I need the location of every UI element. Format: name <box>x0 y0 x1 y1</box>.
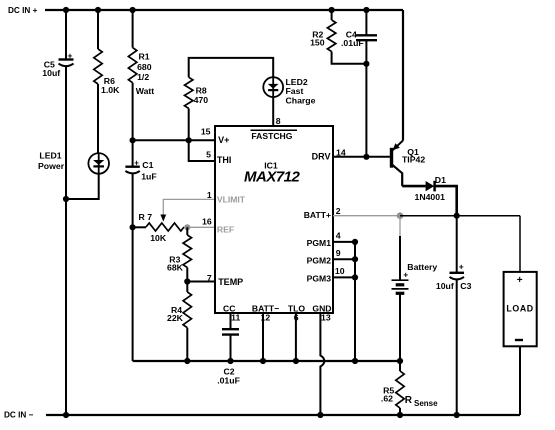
wire: TLO pin 6 to ground bus <box>295 313 297 361</box>
svg-text:C1: C1 <box>142 160 153 170</box>
label R6 value <box>101 76 120 95</box>
svg-text:REF: REF <box>217 224 234 234</box>
svg-text:C3: C3 <box>460 281 471 291</box>
junction: top rail / R2 <box>329 7 335 13</box>
junction: TLO / ground bus <box>293 358 299 364</box>
R7 wiper arrow <box>160 215 166 222</box>
pin number 14 <box>336 148 346 158</box>
junction: top rail / R1 <box>130 7 136 13</box>
svg-text:.01uF: .01uF <box>341 38 364 48</box>
svg-text:LED1: LED1 <box>39 151 61 161</box>
wire: TEMP node to IC <box>187 281 215 283</box>
wire: DRV pin 14 to Q1 base <box>333 156 390 158</box>
svg-text:V+: V+ <box>218 135 229 145</box>
wire: R5 to bottom rail <box>399 408 401 415</box>
svg-text:16: 16 <box>202 217 212 227</box>
node DC IN + label <box>8 6 38 15</box>
label IC1 designator <box>264 161 278 171</box>
pin number 15 <box>201 127 211 137</box>
resistor R5 <box>396 371 404 408</box>
junction: left vertical / R7 left terminal <box>130 224 136 230</box>
junction: PGM2 / PGM strap <box>352 256 358 262</box>
label V+ pin name <box>218 135 229 145</box>
wire: R8 bottom to V+ wire <box>188 108 190 140</box>
label D1 designator <box>415 175 447 202</box>
label R8 value <box>194 85 209 105</box>
wire: IC BATT+ pin 2 to battery node (gray) <box>333 215 400 217</box>
resistor R6 <box>94 49 102 84</box>
wire: C1 to ground bus <box>132 174 134 362</box>
wire: R7 left lead <box>133 226 146 228</box>
svg-text:Charge: Charge <box>286 96 316 106</box>
junction: R7 / REF / R3 (gray) <box>184 224 190 230</box>
wire: R4 to ground bus <box>186 328 188 361</box>
label PGM2 pin name <box>307 256 332 266</box>
capacitor C2 <box>222 329 239 334</box>
wire: V+ to IC pin 15 <box>133 139 215 141</box>
label LOAD <box>506 275 533 340</box>
label R7 value <box>139 212 167 243</box>
label VLIMIT pin name (gray) <box>217 195 246 205</box>
wire: ground bus to R5 <box>399 361 401 371</box>
svg-text:+: + <box>68 51 73 61</box>
svg-text:14: 14 <box>336 148 346 158</box>
svg-text:.01uF: .01uF <box>217 375 240 385</box>
pin number 5 <box>206 150 211 160</box>
junction: R3 / R4 / TEMP <box>184 278 190 284</box>
wire: battery node gray drop <box>399 216 401 236</box>
wire: LOAD to bottom rail <box>519 346 521 415</box>
svg-text:Battery: Battery <box>407 262 437 272</box>
pin number 11 <box>231 312 240 322</box>
svg-text:R 7: R 7 <box>139 212 153 222</box>
wire: R7 right lead to REF (gray) <box>184 226 215 228</box>
svg-text:FASTCHG: FASTCHG <box>251 131 292 141</box>
label C2 value <box>217 367 240 386</box>
junction: BATT+ / battery (gray) <box>397 212 404 219</box>
wire: top rail drop to Q1 emitter <box>402 10 404 141</box>
label PGM3 pin name <box>307 274 332 284</box>
svg-text:Power: Power <box>38 161 65 171</box>
svg-text:R1: R1 <box>139 51 150 61</box>
label Battery <box>403 262 437 280</box>
svg-text:PGM1: PGM1 <box>307 238 332 248</box>
capacitor C3 <box>450 262 465 280</box>
wire: top rail to R2 <box>331 10 333 20</box>
label PGM1 pin name <box>307 238 332 248</box>
wire: top rail to C5 plus plate <box>65 10 67 59</box>
label TEMP pin name <box>218 277 243 287</box>
pin number 13 <box>321 312 331 322</box>
label REF pin name (gray) <box>217 224 234 234</box>
svg-text:150: 150 <box>310 38 325 48</box>
LED LED1 <box>88 153 109 174</box>
pin number 7 <box>207 273 212 283</box>
svg-text:10K: 10K <box>150 233 167 243</box>
junction: top rail / C4 <box>363 7 369 13</box>
wire: CC pin 11 to C2 <box>230 313 232 329</box>
battery B1 <box>392 280 409 293</box>
wire: top rail to R1 <box>132 10 134 48</box>
wire: C3 to bottom rail <box>456 280 458 416</box>
svg-text:Watt: Watt <box>136 86 155 96</box>
svg-text:1.0K: 1.0K <box>101 85 120 95</box>
junction: top rail / C5 <box>63 7 69 13</box>
junction: R2 / C4 <box>363 61 369 67</box>
wire: DC IN- bottom rail <box>46 414 520 416</box>
potentiometer R7 <box>146 223 184 231</box>
svg-text:10uf: 10uf <box>42 68 60 78</box>
junction: PGM1 / PGM strap <box>352 239 358 245</box>
wire: C2 to ground bus <box>230 335 232 361</box>
junction: BATT- / ground bus <box>260 358 266 364</box>
wire: Q1 collector to D1 <box>402 185 426 188</box>
label R3 value <box>167 254 184 272</box>
label C4 value <box>341 29 364 48</box>
wire: LED2 cathode to FASTCHG pin 8 <box>272 97 274 126</box>
svg-text:+: + <box>403 270 408 280</box>
svg-text:10uf: 10uf <box>436 281 454 291</box>
resistor R1 <box>128 48 136 83</box>
junction: R4 / ground bus <box>184 358 190 364</box>
wire: PGM3 pin 10 strap <box>333 276 355 278</box>
wire: PGM1 pin 4 strap <box>333 241 355 243</box>
svg-text:PGM3: PGM3 <box>307 274 332 284</box>
label LED2 <box>286 77 316 105</box>
wire: PGM2 pin 9 strap <box>333 258 355 260</box>
svg-text:1uF: 1uF <box>141 172 156 182</box>
label MAX712 part number <box>244 169 301 186</box>
label Q1 designator <box>402 147 425 165</box>
capacitor C1 <box>125 158 139 173</box>
pin number 4 <box>336 231 341 241</box>
wire: R8 top to LED2 anode <box>189 58 274 78</box>
label GND pin name <box>312 304 331 314</box>
junction: D1 / C3 / BATT+ wire <box>454 213 460 219</box>
load box <box>504 272 537 346</box>
wire: R1 to V+ node <box>132 83 134 141</box>
svg-text:13: 13 <box>321 312 331 322</box>
label R1 value <box>136 51 155 96</box>
wire: R3 to TEMP node <box>186 268 188 282</box>
svg-text:1: 1 <box>207 190 212 200</box>
junction: R8 / V+ wire / THI branch <box>186 137 192 143</box>
wire: TEMP node to R4 <box>186 282 188 292</box>
svg-text:15: 15 <box>201 127 211 137</box>
label R5 value <box>381 386 394 404</box>
junction: R1 / C1 / V+ wire <box>130 137 136 143</box>
wire: DC IN+ top rail <box>45 9 403 11</box>
pin number 8 <box>276 116 281 126</box>
capacitor C4 <box>356 35 377 40</box>
svg-text:22K: 22K <box>167 313 184 323</box>
pin number 10 <box>335 266 345 276</box>
svg-text:Fast: Fast <box>286 86 304 96</box>
resistor R8 <box>185 77 193 108</box>
wire: GND pin 13 hop over bus to bottom rail <box>320 313 324 415</box>
transistor Q1 TIP42 <box>392 141 404 187</box>
resistor R2 <box>327 20 335 52</box>
svg-text:7: 7 <box>207 273 212 283</box>
svg-text:1/2: 1/2 <box>137 72 149 82</box>
wire: VLIMIT to R7 wiper (gray) <box>163 199 215 214</box>
svg-text:+: + <box>459 262 464 272</box>
wire: PGM strap to ground bus <box>354 242 356 361</box>
svg-text:MAX712: MAX712 <box>244 169 301 186</box>
wire: battery node to battery plus plate <box>399 236 401 280</box>
wire: R2 bottom to C4 line <box>332 52 367 64</box>
wire: LED1 cathode down and left to C5 line <box>66 174 99 199</box>
svg-text:LOAD: LOAD <box>506 304 533 314</box>
label DRV pin name <box>312 152 331 162</box>
label R Sense <box>405 395 438 408</box>
wire: V+ node to C1 <box>132 140 134 166</box>
wire: THI branch to IC pin 5 <box>189 140 215 161</box>
svg-text:8: 8 <box>276 116 281 126</box>
pin number 9 <box>336 248 341 258</box>
label R4 value <box>167 305 184 323</box>
svg-text:TIP42: TIP42 <box>402 154 425 164</box>
svg-text:DC IN +: DC IN + <box>8 6 38 15</box>
LED LED2 <box>263 77 283 97</box>
op-amp U1 IC1 MAX712 body <box>215 126 333 313</box>
svg-text:VLIMIT: VLIMIT <box>217 195 246 205</box>
junction: C4 line / DRV wire <box>363 154 369 160</box>
svg-text:680: 680 <box>137 62 152 72</box>
label BATT+ pin name <box>304 210 331 220</box>
pin number 6 <box>294 312 299 322</box>
resistor R3 <box>183 235 191 268</box>
junction: GND / bottom rail <box>317 412 323 418</box>
resistor R4 <box>183 292 191 328</box>
svg-text:THI: THI <box>217 155 232 165</box>
svg-text:1N4001: 1N4001 <box>415 192 446 202</box>
label C1 value <box>141 160 156 181</box>
wire: R6 to LED1 <box>97 84 99 154</box>
capacitor C5 <box>59 51 74 67</box>
svg-text:11: 11 <box>231 312 240 322</box>
junction: C3 / bottom rail <box>454 412 460 418</box>
wire: ground bus under IC <box>133 360 400 362</box>
wire: BATT- pin 12 to ground bus <box>262 313 264 361</box>
svg-text:PGM2: PGM2 <box>307 256 332 266</box>
svg-text:12: 12 <box>261 312 271 322</box>
svg-text:10: 10 <box>335 266 345 276</box>
junction: C2 / ground bus <box>227 358 233 364</box>
wire: C5 to bottom rail <box>65 67 67 416</box>
junction: C5 line / LED1 return <box>63 196 69 202</box>
pin number 1 <box>207 190 212 200</box>
svg-text:9: 9 <box>336 248 341 258</box>
label FASTCHG pin name <box>251 130 298 141</box>
pin number 12 <box>261 312 271 322</box>
wire: D1 cathode to BATT+ node <box>434 186 457 216</box>
label THI pin name <box>217 155 232 165</box>
label C5 value <box>42 59 60 78</box>
wire: BATT+ node to C3 <box>456 216 458 273</box>
wire: C4 to DRV wire <box>365 40 367 157</box>
pin number 16 <box>202 217 212 227</box>
pin number 2 <box>336 206 341 216</box>
svg-text:Sense: Sense <box>414 399 438 408</box>
svg-text:470: 470 <box>194 95 209 105</box>
svg-text:5: 5 <box>206 150 211 160</box>
label BATT- pin name <box>252 304 279 314</box>
label C3 value <box>436 281 472 291</box>
junction: PGM3 / PGM strap <box>352 274 358 280</box>
label LED1 <box>38 151 65 171</box>
junction: R5 / bottom rail <box>397 412 403 418</box>
svg-text:6: 6 <box>294 312 299 322</box>
wire: REF node to R3 <box>186 227 188 235</box>
junction: PGM strap / ground bus <box>352 358 358 364</box>
svg-text:R: R <box>405 395 413 406</box>
label CC pin name <box>223 304 235 314</box>
wire: BATT+ node to LOAD <box>400 215 520 217</box>
svg-text:D1: D1 <box>435 175 446 185</box>
svg-text:+: + <box>134 158 139 167</box>
junction: battery / R5 / ground bus <box>397 358 403 364</box>
svg-text:TEMP: TEMP <box>218 277 243 287</box>
svg-text:2: 2 <box>336 206 341 216</box>
junction: C5 line / bottom rail <box>63 412 69 418</box>
svg-text:68K: 68K <box>167 262 184 272</box>
label R2 value <box>310 29 325 47</box>
wire: top rail to R6 <box>97 10 99 49</box>
wire: BATT+ down to LOAD box <box>519 216 521 272</box>
svg-text:DRV: DRV <box>312 152 331 162</box>
svg-text:BATT+: BATT+ <box>304 210 331 220</box>
label TLO pin name <box>288 304 305 314</box>
svg-text:4: 4 <box>336 231 341 241</box>
svg-text:R8: R8 <box>196 85 207 95</box>
svg-text:DC IN −: DC IN − <box>4 411 34 420</box>
svg-text:+: + <box>517 275 523 286</box>
svg-text:.62: .62 <box>381 393 393 403</box>
wire: top rail to C4 <box>365 10 367 35</box>
node DC IN - label <box>4 411 34 420</box>
wire: battery minus to ground bus <box>399 293 401 361</box>
junction: top rail / R6 <box>95 7 101 13</box>
diode D1 <box>426 181 435 192</box>
